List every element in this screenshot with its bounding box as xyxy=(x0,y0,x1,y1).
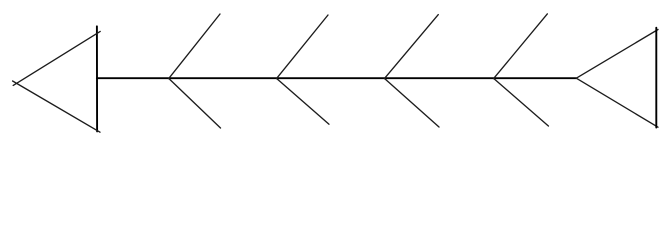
spine wire xyxy=(97,77,576,79)
left tail triangle lower edge xyxy=(13,81,100,132)
rib junction 2 upper branch xyxy=(277,15,329,79)
rib junction 2 lower branch xyxy=(277,78,330,124)
rib junction 4 lower branch xyxy=(494,78,549,126)
rib junction 1 lower branch xyxy=(169,78,221,128)
rib junction 3 upper branch xyxy=(384,15,438,79)
rib junction 3 lower branch xyxy=(384,78,439,127)
rib junction 1 upper branch xyxy=(169,14,220,79)
right head triangle lower edge xyxy=(576,78,658,127)
right head triangle upper edge xyxy=(576,30,658,79)
rib junction 4 upper branch xyxy=(494,14,548,79)
right head triangle vertical edge xyxy=(655,28,657,128)
left tail triangle vertical bar xyxy=(96,26,98,131)
left tail triangle upper edge xyxy=(13,31,100,85)
